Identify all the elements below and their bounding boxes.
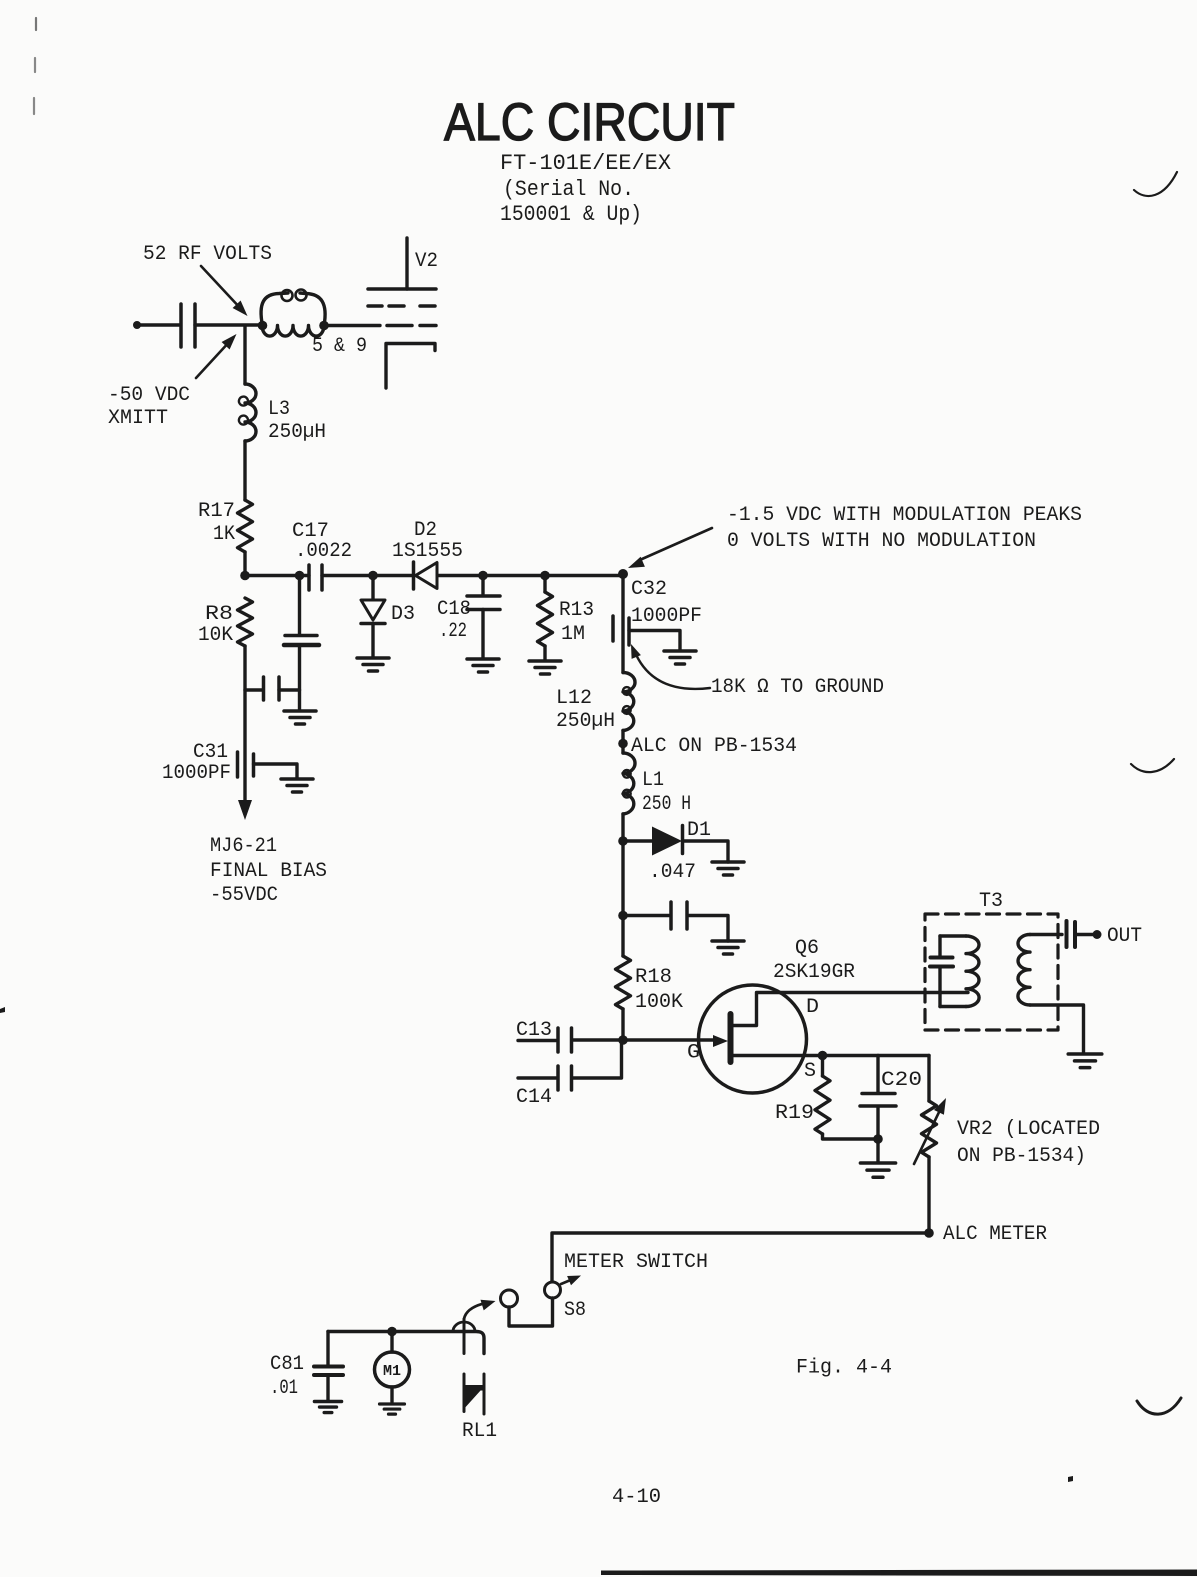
svg-text:(Serial No.: (Serial No. xyxy=(503,177,634,202)
svg-text:FT-101E/EE/EX: FT-101E/EE/EX xyxy=(500,151,671,176)
svg-text:L3: L3 xyxy=(268,398,290,421)
svg-text:R13: R13 xyxy=(559,599,594,622)
svg-text:52 RF VOLTS: 52 RF VOLTS xyxy=(143,243,272,266)
svg-text:C31: C31 xyxy=(193,741,228,764)
svg-text:150001 & Up): 150001 & Up) xyxy=(500,202,642,227)
svg-text:ALC ON PB-1534: ALC ON PB-1534 xyxy=(631,735,797,758)
svg-text:D3: D3 xyxy=(391,603,415,626)
svg-text:C18: C18 xyxy=(437,598,471,621)
svg-text:ON PB-1534): ON PB-1534) xyxy=(957,1145,1086,1168)
svg-text:250µH: 250µH xyxy=(556,710,615,733)
svg-text:10K: 10K xyxy=(198,624,234,647)
svg-text:R17: R17 xyxy=(198,500,235,523)
svg-text:L1: L1 xyxy=(642,769,664,792)
svg-text:.22: .22 xyxy=(439,620,467,643)
svg-text:1000PF: 1000PF xyxy=(631,605,702,628)
svg-text:V2: V2 xyxy=(415,250,438,273)
svg-text:D: D xyxy=(806,996,819,1019)
svg-text:1000PF: 1000PF xyxy=(162,762,231,785)
svg-text:Fig. 4-4: Fig. 4-4 xyxy=(796,1357,892,1380)
svg-text:VR2 (LOCATED: VR2 (LOCATED xyxy=(957,1118,1100,1141)
svg-text:250 H: 250 H xyxy=(642,793,691,816)
svg-text:C81: C81 xyxy=(270,1353,304,1376)
svg-text:1S1555: 1S1555 xyxy=(392,540,463,563)
svg-text:.0022: .0022 xyxy=(295,540,352,563)
svg-text:S: S xyxy=(804,1060,816,1083)
svg-text:100K: 100K xyxy=(635,991,684,1014)
svg-text:ALC METER: ALC METER xyxy=(943,1223,1047,1246)
svg-text:R18: R18 xyxy=(635,966,672,989)
svg-text:R19: R19 xyxy=(775,1102,814,1125)
svg-text:250µH: 250µH xyxy=(268,421,326,444)
svg-text:ALC CIRCUIT: ALC CIRCUIT xyxy=(444,93,735,152)
svg-text:METER SWITCH: METER SWITCH xyxy=(564,1251,708,1274)
svg-text:18K Ω TO GROUND: 18K Ω TO GROUND xyxy=(711,676,884,699)
svg-text:C14: C14 xyxy=(516,1086,552,1109)
svg-text:S8: S8 xyxy=(564,1299,586,1322)
svg-text:.01: .01 xyxy=(270,1377,298,1400)
svg-text:RL1: RL1 xyxy=(462,1420,497,1443)
svg-text:FINAL BIAS: FINAL BIAS xyxy=(210,860,327,883)
svg-text:C13: C13 xyxy=(516,1019,552,1042)
svg-text:2SK19GR: 2SK19GR xyxy=(773,961,855,984)
svg-text:4-10: 4-10 xyxy=(612,1486,661,1509)
svg-text:OUT: OUT xyxy=(1107,925,1142,948)
svg-text:1M: 1M xyxy=(561,623,585,646)
svg-text:D1: D1 xyxy=(687,819,711,842)
svg-text:C32: C32 xyxy=(631,578,667,601)
svg-text:D2: D2 xyxy=(414,519,437,542)
svg-text:-50 VDC: -50 VDC xyxy=(108,384,190,407)
svg-text:C20: C20 xyxy=(881,1069,922,1092)
svg-text:-1.5 VDC WITH MODULATION PEAKS: -1.5 VDC WITH MODULATION PEAKS xyxy=(727,504,1082,527)
svg-text:1K: 1K xyxy=(213,523,236,546)
svg-text:G: G xyxy=(687,1042,700,1065)
svg-text:M1: M1 xyxy=(383,1363,401,1380)
svg-text:Q6: Q6 xyxy=(795,937,819,960)
svg-text:5 & 9: 5 & 9 xyxy=(312,335,367,358)
svg-text:XMITT: XMITT xyxy=(108,407,168,430)
svg-text:.047: .047 xyxy=(649,861,696,884)
svg-text:T3: T3 xyxy=(979,890,1003,913)
svg-text:-55VDC: -55VDC xyxy=(210,884,278,907)
svg-text:MJ6-21: MJ6-21 xyxy=(210,835,277,858)
svg-text:0 VOLTS WITH NO MODULATION: 0 VOLTS WITH NO MODULATION xyxy=(727,530,1036,553)
svg-text:R8: R8 xyxy=(205,603,233,626)
svg-text:L12: L12 xyxy=(556,687,592,710)
